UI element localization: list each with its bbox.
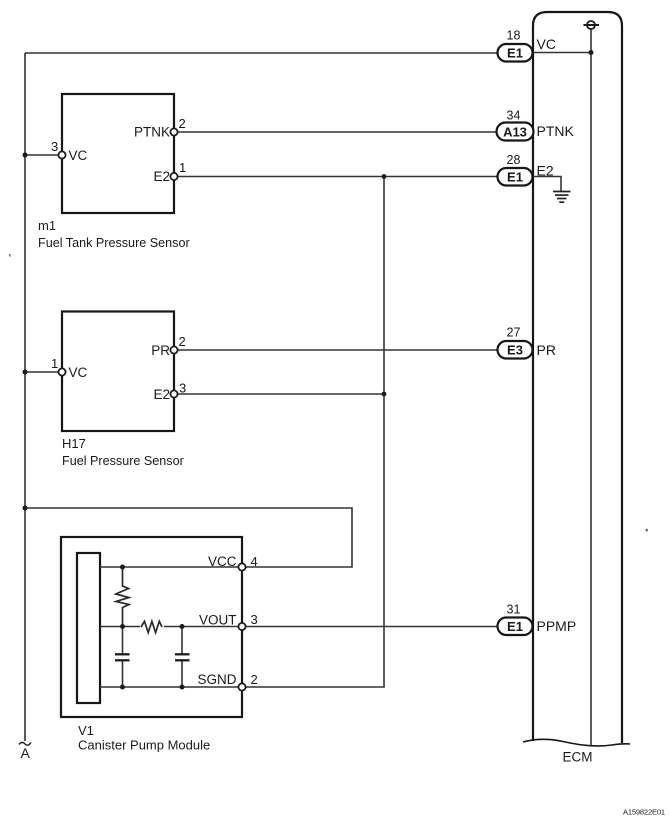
ECM internal VC bus vertical bbox=[590, 29, 592, 746]
wire VC top horizontal to ECM terminal 18 bbox=[25, 52, 498, 54]
svg-text:H17: H17 bbox=[62, 436, 86, 451]
svg-text:3: 3 bbox=[51, 139, 58, 154]
sensor box H17 bbox=[62, 312, 174, 432]
wire m1 E2 to E1(28) bbox=[177, 176, 498, 178]
svg-text:m1: m1 bbox=[38, 218, 56, 233]
svg-text:SGND: SGND bbox=[197, 672, 236, 687]
terminal 34 A13 oval bbox=[497, 123, 534, 141]
wire VOUT internal right bbox=[164, 626, 239, 628]
svg-text:E1: E1 bbox=[507, 46, 523, 61]
wire VOUT to PPMP bbox=[245, 626, 498, 628]
svg-text:PTNK: PTNK bbox=[134, 125, 170, 140]
terminal 18 E1 oval bbox=[498, 44, 533, 62]
svg-text:4: 4 bbox=[251, 554, 258, 569]
capacitor C2 plates bbox=[175, 653, 190, 655]
svg-text:2: 2 bbox=[251, 672, 258, 687]
svg-text:27: 27 bbox=[507, 326, 521, 340]
svg-text:E1: E1 bbox=[507, 619, 523, 634]
svg-text:PR: PR bbox=[151, 343, 170, 358]
junction E2 bus top bbox=[382, 174, 387, 179]
junction VOUT-R-C1 bbox=[120, 624, 125, 629]
connector A break squiggle bbox=[19, 742, 31, 745]
junction VOUT-C2 bbox=[180, 624, 185, 629]
svg-text:Fuel Pressure Sensor: Fuel Pressure Sensor bbox=[62, 454, 184, 468]
svg-text:2: 2 bbox=[179, 334, 186, 349]
wire VCC internal bbox=[100, 566, 239, 568]
svg-text:31: 31 bbox=[507, 603, 521, 617]
svg-text:1: 1 bbox=[179, 160, 186, 175]
svg-text:2: 2 bbox=[179, 116, 186, 131]
svg-text:E3: E3 bbox=[507, 343, 523, 358]
pin 3 circle VOUT bbox=[238, 623, 245, 630]
resistor R vertical bbox=[116, 567, 129, 627]
wire VC bus left vertical bbox=[24, 53, 26, 741]
ECM box outline bbox=[533, 12, 622, 743]
junction on bus at m1 VC bbox=[23, 153, 28, 158]
wire H17 PR to E3 bbox=[177, 349, 498, 351]
wire H17 E2 to bus bbox=[177, 393, 384, 395]
svg-text:VC: VC bbox=[69, 148, 88, 163]
resistor R horizontal bbox=[141, 621, 162, 632]
svg-text:PR: PR bbox=[537, 342, 556, 358]
junction SGND-C1 bbox=[120, 685, 125, 690]
svg-text:PPMP: PPMP bbox=[537, 618, 577, 634]
junction VC on bus bbox=[589, 50, 594, 55]
terminal 31 E1 oval bbox=[498, 618, 533, 636]
pin 2 circle SGND bbox=[238, 683, 245, 690]
svg-text:VC: VC bbox=[537, 36, 556, 52]
pin 1 circle H17 VC bbox=[58, 368, 65, 375]
svg-text:E1: E1 bbox=[507, 170, 523, 185]
wire VCC loop bbox=[25, 508, 352, 567]
module box V1 bbox=[61, 537, 242, 717]
terminal 28 E1 oval bbox=[498, 168, 533, 186]
ECM torn bottom edge bbox=[523, 739, 630, 746]
svg-text:18: 18 bbox=[507, 29, 521, 43]
capacitor C2 leads bbox=[181, 627, 183, 654]
sensor box m1 bbox=[62, 94, 174, 213]
svg-text:Fuel Tank Pressure Sensor: Fuel Tank Pressure Sensor bbox=[38, 236, 190, 250]
svg-text:V1: V1 bbox=[78, 723, 94, 738]
ECM power node circle bbox=[587, 21, 595, 29]
wire VC internal bbox=[533, 52, 591, 54]
capacitor C1 leads bbox=[122, 627, 124, 654]
svg-text:3: 3 bbox=[251, 612, 258, 627]
terminal 27 E3 oval bbox=[498, 341, 533, 359]
wire E2 to ground bbox=[533, 177, 561, 192]
svg-text:A: A bbox=[21, 745, 31, 761]
pin 4 circle VCC bbox=[238, 563, 245, 570]
svg-text:ECM: ECM bbox=[563, 750, 593, 765]
capacitor C1 plates bbox=[115, 653, 130, 655]
speck bbox=[9, 254, 11, 257]
svg-text:E2: E2 bbox=[153, 387, 170, 402]
pin 3 circle H17 E2 bbox=[170, 390, 177, 397]
svg-text:E2: E2 bbox=[153, 169, 170, 184]
pump element rectangle bbox=[77, 553, 100, 703]
wire SGND internal bbox=[100, 686, 239, 688]
junction SGND-C2 bbox=[180, 685, 185, 690]
pin 3 circle m1 VC bbox=[58, 151, 65, 158]
svg-text:3: 3 bbox=[179, 381, 186, 396]
ECM power node bar bbox=[584, 24, 600, 26]
svg-text:VCC: VCC bbox=[208, 554, 237, 569]
wire E2/SGND vertical bus bbox=[383, 177, 385, 688]
pin 2 circle m1 PTNK bbox=[170, 128, 177, 135]
wire m1 PTNK to A13 bbox=[177, 131, 498, 133]
junction E2 bus at H17 E2 bbox=[382, 392, 387, 397]
pin 2 circle H17 PR bbox=[170, 346, 177, 353]
wire SGND horizontal bbox=[245, 686, 385, 688]
svg-text:PTNK: PTNK bbox=[537, 123, 575, 139]
wire m1 VC stub bbox=[25, 154, 59, 156]
svg-text:VOUT: VOUT bbox=[199, 613, 237, 628]
speck bbox=[646, 529, 648, 532]
svg-text:Canister Pump Module: Canister Pump Module bbox=[78, 738, 210, 753]
svg-text:1: 1 bbox=[51, 356, 58, 371]
svg-text:A13: A13 bbox=[503, 124, 527, 139]
junction on bus at H17 VC bbox=[23, 370, 28, 375]
svg-text:A159822E01: A159822E01 bbox=[623, 808, 665, 817]
svg-text:VC: VC bbox=[69, 365, 88, 380]
junction VCC-R bbox=[120, 565, 125, 570]
svg-text:28: 28 bbox=[507, 153, 521, 167]
junction on bus at VCC loop bbox=[23, 506, 28, 511]
ground symbol bbox=[553, 192, 571, 203]
svg-text:E2: E2 bbox=[537, 163, 554, 179]
pin 1 circle m1 E2 bbox=[170, 173, 177, 180]
wire H17 VC stub bbox=[25, 371, 59, 373]
wire VOUT internal left bbox=[100, 626, 140, 628]
svg-text:34: 34 bbox=[507, 109, 521, 123]
